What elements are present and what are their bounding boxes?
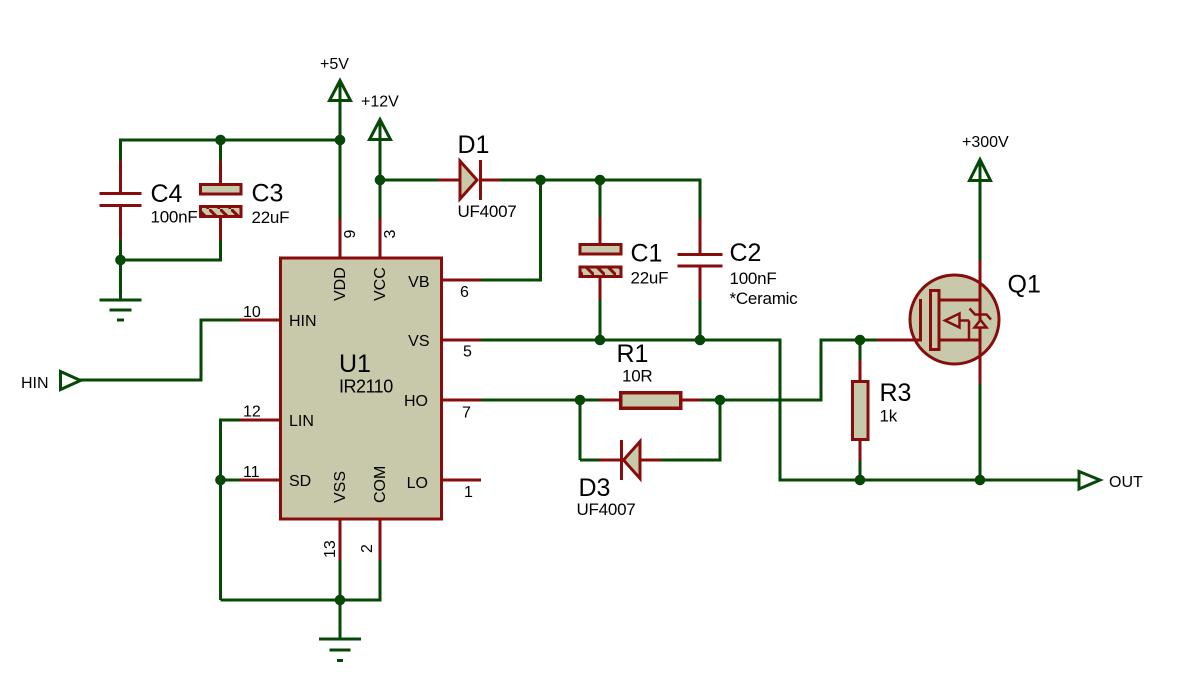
- svg-text:1k: 1k: [880, 407, 898, 426]
- svg-text:+300V: +300V: [962, 134, 1009, 151]
- svg-text:LO: LO: [407, 475, 428, 492]
- pin 10 HIN stub: [240, 319, 279, 322]
- wire HO pin7 to R1: [481, 399, 599, 402]
- capacitor C1 electrolytic: [580, 217, 668, 300]
- wire bottom rail to VSS junction: [221, 599, 341, 602]
- node junction C4 ground: [115, 255, 126, 266]
- wire C2 top lead green part: [699, 179, 702, 220]
- wire R3 top green part: [859, 339, 862, 362]
- wire +12V stem: [379, 123, 382, 180]
- diode D3: [577, 440, 662, 519]
- svg-text:*Ceramic: *Ceramic: [730, 289, 799, 308]
- wire VB pin6 to riser: [481, 279, 541, 282]
- wire SD pin11 stub link: [221, 479, 241, 482]
- capacitor C3 electrolytic: [201, 161, 290, 240]
- svg-text:22uF: 22uF: [252, 208, 290, 227]
- wire pin 3 green part: [379, 180, 382, 218]
- wire gate riser x=821: [820, 340, 823, 402]
- pin 1 LO stub: [443, 479, 481, 482]
- svg-text:Q1: Q1: [1008, 271, 1041, 299]
- node junction VB riser: [535, 175, 546, 186]
- wire Q1 drain green part: [979, 163, 982, 260]
- svg-text:HIN: HIN: [21, 375, 49, 392]
- svg-text:10: 10: [243, 304, 261, 321]
- ground 2 under IC: [319, 639, 361, 661]
- node junction R3 bottom: [855, 475, 866, 486]
- wire HIN to pin10: [200, 319, 241, 322]
- wire HIN riser x=201: [200, 320, 203, 382]
- wire bottom rail y=260 C4 to C3: [121, 259, 221, 262]
- node junction R1 right D3: [715, 395, 726, 406]
- svg-text:LIN: LIN: [289, 413, 314, 430]
- wire LIN pin12 stub link: [221, 419, 241, 422]
- wire C2 bottom lead green part: [699, 300, 702, 340]
- wire R1 right to riser corner: [701, 399, 821, 402]
- svg-text:IR2110: IR2110: [339, 377, 393, 397]
- svg-text:22uF: 22uF: [631, 269, 669, 288]
- wire pin 9 green part: [339, 140, 342, 218]
- svg-text:D3: D3: [579, 474, 611, 502]
- svg-text:C1: C1: [631, 240, 663, 268]
- wire R3 bottom green part: [859, 461, 862, 480]
- capacitor C4: [100, 161, 198, 239]
- svg-text:100nF: 100nF: [151, 208, 198, 227]
- wire ground stem below C4 junction: [119, 260, 122, 300]
- capacitor C2: [678, 218, 799, 308]
- node junction VSS COM ground: [335, 595, 346, 606]
- wire COM pin2 green part: [379, 560, 382, 600]
- svg-text:HIN: HIN: [289, 313, 317, 330]
- svg-text:100nF: 100nF: [730, 269, 777, 288]
- svg-text:R3: R3: [880, 379, 912, 407]
- wire LIN drop to SD junction: [219, 419, 222, 481]
- power +300V symbol: [970, 160, 991, 181]
- node junction C1 top: [595, 175, 606, 186]
- node junction R1 left D3: [575, 395, 586, 406]
- power +5V symbol: [330, 81, 351, 101]
- pin 11 SD stub: [240, 479, 279, 482]
- wire C3 bottom lead green part: [219, 240, 222, 262]
- pin 5 VS stub: [443, 339, 481, 342]
- wire C1 bottom lead green part: [599, 300, 602, 340]
- wire SD drop to bottom rail: [219, 480, 222, 600]
- svg-text:C3: C3: [252, 180, 284, 208]
- svg-text:11: 11: [243, 464, 260, 481]
- svg-text:VSS: VSS: [332, 471, 349, 503]
- wire D3 branch drop left: [579, 400, 582, 460]
- wire +5V stem: [339, 84, 342, 140]
- wire gate rail to Q1: [820, 339, 878, 342]
- pin 3 VCC stub: [379, 218, 382, 257]
- svg-text:R1: R1: [617, 340, 649, 368]
- wire VS net drop at x=780: [779, 339, 782, 481]
- wire D3 branch rise right: [719, 400, 722, 462]
- pin 6 VB stub: [443, 279, 481, 282]
- node junction C1 bottom: [595, 335, 606, 346]
- transistor Q1 MOSFET: [877, 260, 1041, 383]
- wire COM to VSS junction: [340, 599, 382, 602]
- svg-text:3: 3: [382, 230, 399, 239]
- wire C1 top lead green part: [599, 180, 602, 217]
- wire C4 top lead green part: [119, 139, 122, 162]
- power +12V symbol: [370, 120, 391, 140]
- wire HIN terminal to corner: [80, 379, 201, 382]
- svg-text:U1: U1: [339, 350, 371, 378]
- svg-text:9: 9: [342, 230, 359, 239]
- pin 7 HO stub: [443, 399, 481, 402]
- svg-text:C2: C2: [730, 239, 762, 267]
- svg-text:D1: D1: [458, 131, 490, 159]
- node junction Q1 source: [975, 475, 986, 486]
- node junction Q1 gate: [855, 335, 866, 346]
- svg-text:VCC: VCC: [372, 267, 389, 301]
- node junction LIN SD: [215, 475, 226, 486]
- wire ground2 stem: [339, 600, 342, 639]
- wire Q1 source green part: [979, 383, 982, 480]
- node junction C3 top: [215, 135, 226, 146]
- svg-text:1: 1: [464, 484, 473, 501]
- pin 13 VSS stub: [339, 521, 342, 561]
- svg-text:UF4007: UF4007: [458, 202, 517, 221]
- wire C3 top lead green part: [219, 139, 222, 162]
- op-amp U1 IC body: [281, 258, 442, 519]
- diode D1: [438, 131, 516, 221]
- node junction +12V pin3: [375, 175, 386, 186]
- wire top rail y=140 from C4 to +5V junction: [121, 139, 341, 142]
- wire +12V junction to D1 anode: [380, 179, 438, 182]
- svg-text:12: 12: [243, 404, 261, 421]
- svg-text:10R: 10R: [622, 367, 652, 386]
- node junction C2 bottom: [695, 335, 706, 346]
- svg-text:2: 2: [359, 544, 376, 553]
- svg-text:UF4007: UF4007: [577, 500, 636, 519]
- pin 9 VDD stub: [339, 218, 342, 257]
- wire VS net pin5 to right corner: [481, 339, 780, 342]
- wire VB riser up to D1 net: [539, 180, 542, 282]
- wire D3 anode link: [661, 459, 720, 462]
- svg-text:VS: VS: [408, 333, 429, 350]
- wire D1 cathode to C2 top corner: [500, 179, 700, 182]
- svg-text:COM: COM: [372, 466, 389, 503]
- svg-text:+5V: +5V: [320, 56, 349, 73]
- svg-text:7: 7: [462, 405, 471, 422]
- pin 12 LIN stub: [240, 419, 279, 422]
- terminal HIN: [61, 372, 81, 390]
- pin 2 COM stub: [379, 521, 382, 561]
- wire C4 bottom lead green part: [119, 239, 122, 262]
- resistor R3: [853, 360, 912, 461]
- svg-text:6: 6: [460, 284, 469, 301]
- svg-text:VDD: VDD: [332, 267, 349, 301]
- wire VSS pin13 green part: [339, 560, 342, 600]
- wire D3 cathode link: [580, 459, 599, 462]
- node junction +5V pin9: [335, 135, 346, 146]
- svg-text:C4: C4: [151, 180, 183, 208]
- svg-text:13: 13: [322, 540, 339, 558]
- resistor R1: [599, 340, 701, 408]
- svg-text:OUT: OUT: [1109, 474, 1143, 491]
- svg-text:+12V: +12V: [361, 94, 399, 111]
- svg-text:HO: HO: [404, 393, 428, 410]
- ground 1 under C4: [100, 300, 142, 320]
- terminal OUT: [1079, 472, 1100, 490]
- svg-text:5: 5: [463, 344, 472, 361]
- wire OUT rail y=480: [779, 479, 1080, 482]
- svg-text:SD: SD: [289, 473, 311, 490]
- svg-text:VB: VB: [408, 274, 429, 291]
